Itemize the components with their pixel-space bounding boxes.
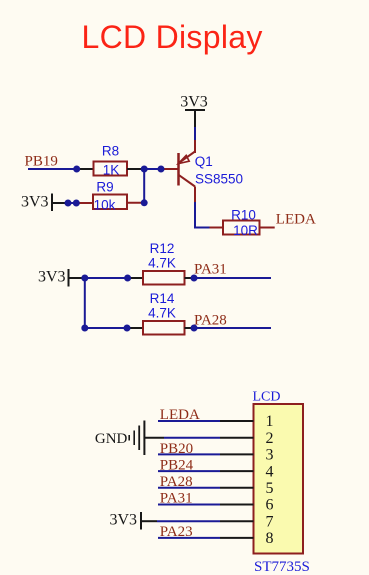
svg-text:Q1: Q1 [195, 154, 213, 169]
svg-text:3V3: 3V3 [180, 94, 208, 111]
svg-text:7: 7 [266, 513, 274, 530]
svg-text:SS8550: SS8550 [195, 172, 243, 187]
svg-text:2: 2 [266, 430, 274, 447]
svg-text:3V3: 3V3 [38, 269, 66, 286]
svg-text:LEDA: LEDA [276, 211, 316, 227]
svg-text:PA31: PA31 [194, 262, 227, 278]
svg-text:1: 1 [266, 413, 274, 430]
svg-text:ST7735S: ST7735S [254, 559, 310, 575]
svg-text:10k: 10k [94, 197, 116, 212]
svg-text:PB19: PB19 [25, 154, 58, 170]
svg-text:1K: 1K [103, 162, 120, 177]
svg-text:PB20: PB20 [160, 441, 193, 457]
svg-text:GND: GND [95, 431, 128, 447]
svg-text:4.7K: 4.7K [148, 256, 176, 271]
svg-text:R10: R10 [231, 208, 256, 223]
svg-text:R12: R12 [150, 241, 175, 256]
svg-text:3: 3 [266, 447, 274, 464]
svg-text:3V3: 3V3 [109, 512, 137, 529]
svg-text:R14: R14 [150, 291, 175, 306]
svg-text:LEDA: LEDA [160, 407, 200, 423]
svg-text:LCD: LCD [253, 390, 281, 405]
svg-text:3V3: 3V3 [21, 194, 49, 211]
svg-text:PA31: PA31 [160, 491, 193, 507]
svg-text:LCD Display: LCD Display [82, 19, 263, 55]
svg-text:PB24: PB24 [160, 458, 194, 474]
svg-text:8: 8 [266, 530, 274, 547]
svg-text:R8: R8 [102, 144, 119, 159]
svg-text:10R: 10R [233, 223, 258, 238]
svg-text:PA28: PA28 [160, 474, 193, 490]
svg-text:4: 4 [266, 463, 274, 480]
svg-text:6: 6 [266, 497, 274, 514]
svg-text:PA23: PA23 [160, 524, 193, 540]
svg-text:PA28: PA28 [194, 313, 227, 329]
svg-text:R9: R9 [96, 180, 113, 195]
svg-text:4.7K: 4.7K [148, 306, 176, 321]
svg-text:5: 5 [266, 480, 274, 497]
